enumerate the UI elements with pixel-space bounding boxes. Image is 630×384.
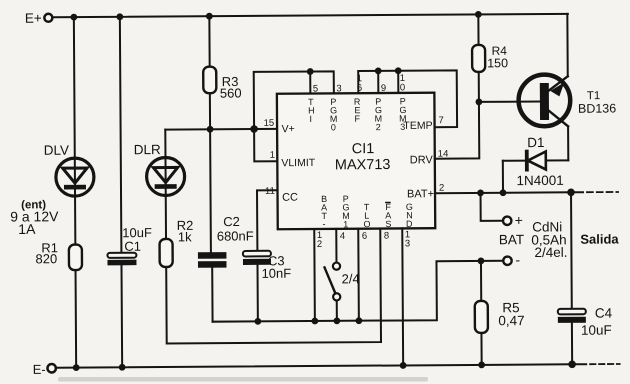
pin number 16	[357, 73, 362, 94]
junction dot bottom rail x=121	[119, 364, 126, 371]
svg-text:8: 8	[384, 231, 389, 242]
wire R2 to FAS line	[166, 229, 381, 344]
svg-text:2/4: 2/4	[342, 271, 360, 286]
wire DRV net	[434, 102, 479, 159]
wire bottom rail dashed output	[572, 363, 586, 365]
wire top supply rail	[53, 14, 568, 17]
svg-text:10nF: 10nF	[262, 266, 292, 281]
node E+ terminal	[25, 11, 53, 26]
wire DLV branch down	[73, 17, 76, 157]
svg-text:3: 3	[336, 83, 341, 94]
wire D1 cathode to BAT+ line	[502, 161, 504, 193]
wire C4 branch	[570, 192, 573, 309]
diode D1 1N4001	[503, 135, 569, 188]
svg-text:0: 0	[400, 82, 405, 93]
svg-text:VLIMIT: VLIMIT	[281, 157, 316, 169]
wire pin9 stub	[377, 71, 379, 93]
junction dot D1 BAT+	[500, 189, 507, 196]
wire to + terminal	[481, 193, 503, 221]
svg-text:7: 7	[439, 115, 444, 126]
junction dot pin9	[375, 67, 382, 74]
wire R3 to C2	[210, 93, 211, 252]
svg-text:1: 1	[270, 150, 275, 161]
label input rating	[10, 199, 59, 237]
svg-text:-: -	[322, 219, 325, 229]
pin label BAT-	[321, 194, 328, 229]
pin number 12	[317, 230, 322, 250]
pin number 10	[400, 73, 405, 94]
svg-text:F: F	[354, 114, 360, 124]
pin label THI	[308, 97, 315, 124]
svg-text:9: 9	[381, 83, 386, 94]
wire C1 branch down	[120, 17, 122, 253]
svg-text:E-: E-	[33, 362, 46, 377]
svg-text:150: 150	[487, 56, 508, 70]
resistor R5 0,47	[474, 261, 524, 365]
svg-text:1A: 1A	[18, 221, 36, 237]
svg-text:E+: E+	[25, 11, 42, 26]
junction dot V+ at R3	[207, 126, 214, 133]
junction dot R5 bottom rail	[478, 361, 485, 368]
pin label TLO	[363, 202, 370, 229]
pin label FAS	[385, 202, 391, 229]
node E- terminal	[33, 362, 56, 377]
pin number 13	[405, 229, 410, 249]
wire C1 to bottom rail	[120, 265, 123, 367]
svg-text:DRV: DRV	[410, 154, 434, 166]
junction dot switch negative line	[333, 317, 340, 324]
node BAT+ terminal	[503, 212, 523, 228]
wire THI PGM0 tie	[254, 71, 334, 129]
svg-text:3: 3	[400, 122, 405, 132]
resistor R1 820	[35, 240, 82, 270]
LED DLR	[134, 142, 185, 196]
svg-text:DLV: DLV	[44, 143, 69, 158]
wire DLV to R1	[74, 196, 76, 245]
resistor R3 560	[203, 16, 242, 101]
junction dot pin5	[307, 68, 314, 75]
svg-text:1k: 1k	[178, 229, 192, 244]
svg-text:I: I	[309, 114, 312, 124]
capacitor C3 10nF	[243, 251, 291, 281]
svg-text:O: O	[363, 219, 370, 229]
svg-text:V+: V+	[282, 123, 295, 135]
transistor T1 BD136	[518, 74, 616, 126]
wire C2 to negative line	[211, 268, 213, 322]
junction dot TLO negative line	[355, 317, 362, 324]
svg-text:T1: T1	[587, 90, 601, 102]
wire VLIMIT	[254, 129, 277, 162]
junction dot pin10	[395, 67, 402, 74]
svg-text:10uF: 10uF	[581, 323, 612, 338]
wire BAT- pin 12 down	[313, 229, 316, 321]
wire PGM1 pin 4 to switch	[335, 229, 337, 262]
pin label PGM3	[399, 96, 407, 132]
svg-text:C4: C4	[595, 306, 613, 321]
wire BAT+ line pin 2	[435, 191, 571, 194]
svg-text:0: 0	[331, 122, 336, 132]
svg-text:TEMP: TEMP	[403, 120, 432, 132]
junction dot top rail x=75	[70, 14, 77, 21]
wire C3 to negative line	[256, 265, 258, 321]
svg-text:+: +	[515, 212, 523, 228]
junction dot top rail x=210.5	[206, 13, 213, 20]
junction dot BAT+ C4	[567, 188, 575, 196]
svg-text:MAX713: MAX713	[335, 157, 391, 173]
pin label REF	[354, 97, 361, 124]
wire C4 to bottom rail	[571, 323, 573, 364]
pin label PGM1	[342, 194, 350, 230]
resistor R4 150	[472, 14, 508, 102]
junction dot GND bottom rail	[400, 362, 407, 369]
junction dot V+ at 254.5	[250, 125, 258, 133]
svg-text:C2: C2	[223, 214, 240, 229]
label battery type	[531, 219, 567, 260]
junction dot R4 base DRV	[475, 98, 482, 105]
svg-text:S: S	[385, 219, 391, 229]
svg-text:1N4001: 1N4001	[516, 173, 563, 188]
junction dot BAT- negative line	[311, 318, 318, 325]
svg-text:BAT: BAT	[499, 232, 524, 247]
svg-text:0,47: 0,47	[498, 313, 524, 328]
svg-text:2: 2	[376, 122, 381, 132]
svg-text:2/4el.: 2/4el.	[534, 245, 567, 260]
svg-text:6: 6	[357, 83, 362, 94]
junction dot BAT+ branch	[477, 189, 484, 196]
wire pin10 stub	[397, 71, 399, 93]
wire R1 to bottom rail	[75, 270, 78, 367]
wire DLR to R2	[165, 195, 167, 239]
svg-text:560: 560	[220, 85, 242, 100]
wire bottom rail	[56, 364, 572, 367]
capacitor C2 680nF	[198, 214, 254, 268]
svg-text:D1: D1	[527, 135, 544, 150]
resistor R2 1k	[159, 218, 193, 267]
junction dot C4 bottom rail	[568, 360, 576, 368]
capacitor C4 10uF	[558, 306, 613, 338]
svg-text:820: 820	[35, 251, 57, 266]
junction dot bottom rail x=75	[73, 364, 80, 371]
scan smudge bottom	[58, 377, 428, 382]
svg-text:1: 1	[343, 219, 348, 229]
svg-text:11: 11	[265, 186, 275, 197]
svg-text:DLR: DLR	[134, 142, 161, 157]
capacitor C1 10uF	[107, 225, 152, 265]
svg-text:Salida: Salida	[580, 231, 619, 246]
wire DLR branch from V+ line	[164, 130, 166, 157]
svg-text:BD136: BD136	[578, 102, 616, 116]
svg-text:CC: CC	[282, 192, 298, 204]
wire T1 emitter to top rail	[566, 14, 568, 76]
wire V+ line	[165, 128, 277, 131]
wire pin5 stub	[309, 72, 311, 94]
svg-text:-: -	[515, 252, 520, 268]
LED DLV	[44, 142, 94, 196]
svg-text:6: 6	[362, 231, 367, 242]
wire switch to negative line	[336, 300, 338, 320]
svg-text:4: 4	[340, 231, 345, 242]
svg-text:5: 5	[313, 83, 318, 94]
switch 2/4	[324, 262, 359, 300]
pin label PGM2	[374, 97, 382, 133]
svg-text:680nF: 680nF	[217, 228, 254, 243]
pin label GND	[406, 202, 413, 229]
wire BAT+ dashed output	[571, 191, 583, 193]
wire base R4 to T1	[479, 101, 540, 103]
node BAT- terminal	[503, 252, 520, 268]
junction dot R5 top	[478, 257, 485, 264]
IC CI1 MAX713	[277, 93, 435, 230]
pin label PGM0	[330, 97, 338, 133]
svg-text:C1: C1	[124, 239, 141, 254]
svg-text:D: D	[406, 219, 413, 229]
svg-text:3: 3	[405, 238, 410, 249]
wire GND pin 13 down	[401, 228, 404, 365]
wire T1 collector down	[567, 126, 569, 160]
svg-text:2: 2	[317, 239, 322, 250]
junction dot top rail x=121	[116, 13, 123, 20]
wire CC to C3	[257, 190, 278, 251]
svg-text:15: 15	[264, 118, 275, 129]
junction dot top rail x=479.5	[475, 11, 482, 18]
wire TLO pin 6 down	[357, 229, 360, 321]
svg-text:CI1: CI1	[352, 141, 375, 157]
wire TEMP tie pins 16 9 10	[358, 70, 457, 127]
junction dot C3 negative	[254, 318, 261, 325]
svg-text:BAT+: BAT+	[407, 188, 434, 200]
wire negative battery line	[212, 261, 504, 322]
svg-text:2: 2	[439, 183, 444, 194]
